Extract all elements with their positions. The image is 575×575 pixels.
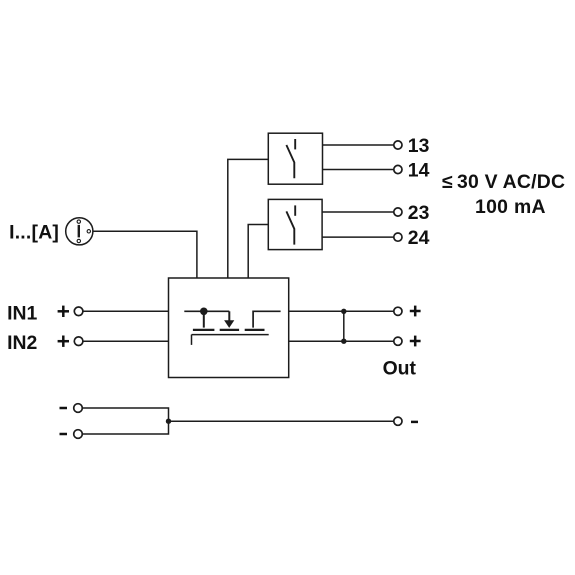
minus sign input 2	[60, 433, 68, 436]
terminal circle Out + upper	[394, 307, 402, 315]
relay contact K1 box	[268, 133, 322, 184]
terminal circle minus 2	[74, 430, 83, 439]
mosfet Q1 drain lead	[203, 311, 205, 327]
svg-text:14: 14	[408, 160, 430, 182]
wire: module to output terminal + (lower)	[289, 340, 394, 342]
wire: K2 to terminal 23	[322, 211, 394, 213]
svg-text:≤ 30 V AC/DC: ≤ 30 V AC/DC	[442, 171, 565, 193]
plus sign IN1	[58, 306, 69, 317]
plus sign IN2	[58, 336, 69, 347]
wire: minus 1 to tie point	[83, 408, 169, 421]
terminal circle Out minus	[394, 417, 402, 425]
plus sign Out upper	[410, 306, 421, 317]
terminal circle IN1	[74, 307, 83, 316]
current transducer symbol	[66, 218, 93, 245]
junction dot output lower	[341, 339, 346, 344]
wire: K1 to terminal 13	[323, 144, 394, 146]
wire: module to output terminal + (upper)	[289, 310, 394, 312]
relay contact K2 box	[268, 199, 322, 249]
terminal circle 14	[394, 165, 402, 173]
svg-text:24: 24	[408, 227, 430, 249]
relay contact K2 switch symbol	[286, 205, 295, 244]
mosfet drain bus	[184, 310, 229, 312]
terminal circle 24	[394, 233, 402, 241]
terminal circle 23	[394, 208, 402, 216]
minus sign input 1	[60, 407, 68, 410]
mosfet gate lead	[191, 335, 193, 345]
mosfet Q1 channel bar	[193, 329, 215, 331]
wire: minus rail to output minus terminal	[169, 420, 394, 422]
terminal circle IN2	[74, 337, 83, 346]
mosfet gate line	[192, 334, 269, 336]
body diode arrow	[224, 320, 234, 328]
svg-text:Out: Out	[383, 358, 417, 380]
junction dot minus rail	[166, 419, 171, 424]
terminal circle Out + lower	[394, 337, 402, 345]
mosfet Q2 channel bar	[245, 329, 265, 331]
terminal circle 13	[394, 141, 402, 149]
plus sign Out lower	[410, 336, 421, 347]
relay contact K1 switch symbol	[286, 139, 295, 178]
wire: K2 to terminal 24	[322, 236, 394, 238]
minus sign output	[411, 421, 418, 424]
svg-text:13: 13	[408, 135, 430, 157]
wire: K1 to terminal 14	[323, 169, 394, 171]
svg-text:IN1: IN1	[7, 302, 37, 324]
body diode lead	[228, 311, 230, 321]
mosfet Q1/Q2 internal symbol	[184, 308, 280, 345]
wire: output tie vertical	[343, 311, 345, 341]
wire: IN1 terminal to module	[83, 310, 168, 312]
wire: module top to K1 drive input	[228, 159, 268, 278]
svg-text:I...[A]: I...[A]	[9, 222, 59, 244]
svg-text:100 mA: 100 mA	[475, 196, 546, 218]
junction dot on drain bus	[200, 308, 208, 316]
wire: minus 2 to tie point	[83, 421, 169, 434]
module box U1	[169, 278, 289, 378]
mosfet Q2 drain lead	[253, 311, 281, 327]
wire: IN2 terminal to module	[83, 340, 168, 342]
svg-text:23: 23	[408, 202, 430, 224]
svg-text:IN2: IN2	[7, 332, 37, 354]
wire: module top to K2 drive input	[248, 225, 268, 279]
wire: transducer to module top	[93, 231, 197, 278]
terminal circle minus 1	[74, 404, 83, 413]
mosfet middle channel bar	[220, 329, 239, 331]
junction dot output upper	[341, 309, 346, 314]
